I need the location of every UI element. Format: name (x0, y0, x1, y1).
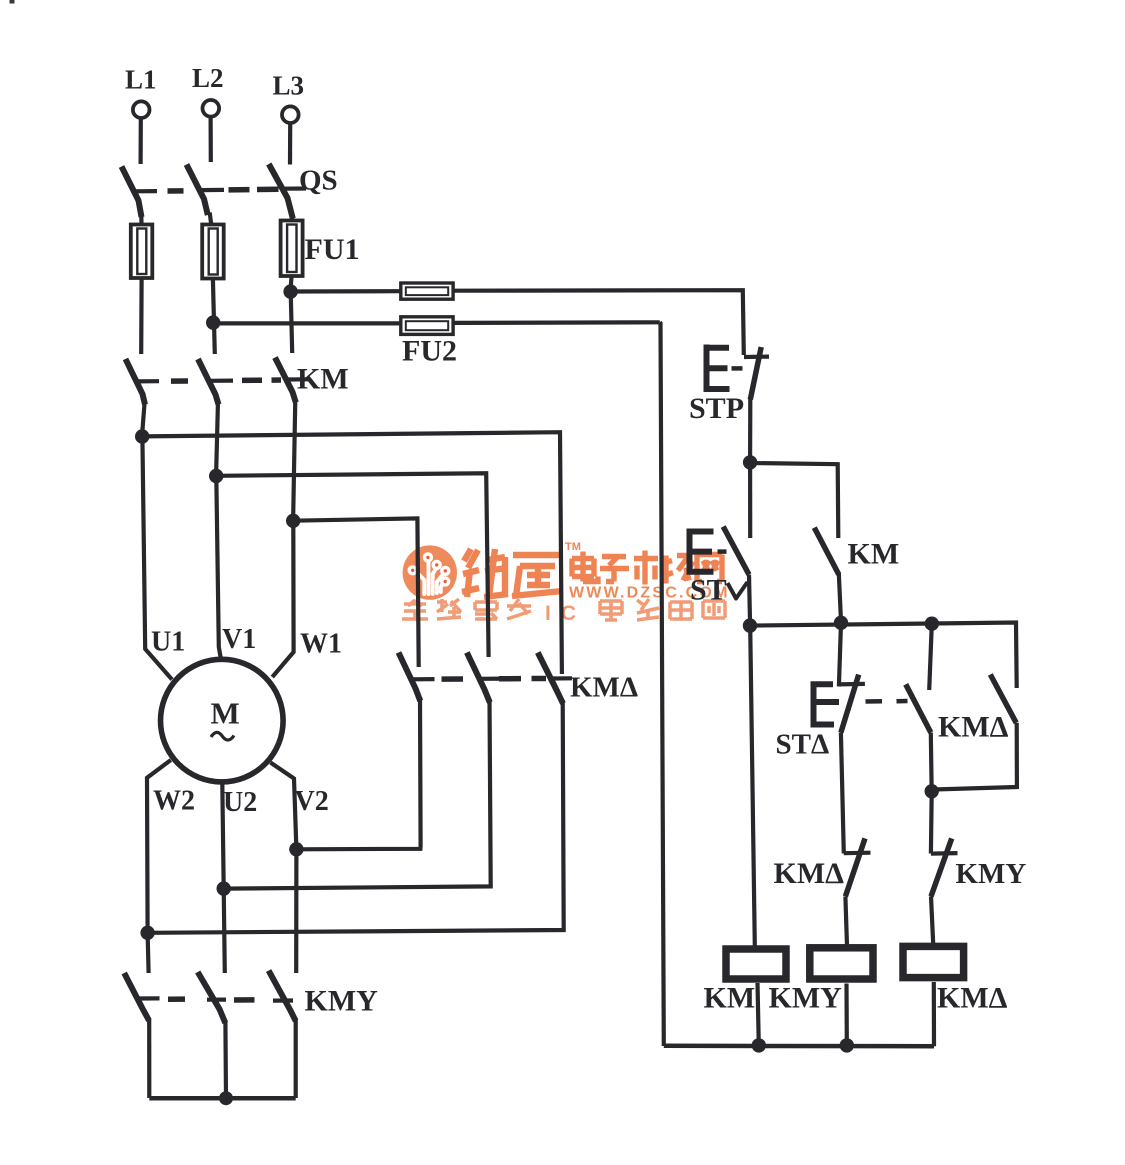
pushbutton STP actuator (704, 345, 730, 392)
wire node G down (929, 624, 932, 690)
wire KMd3 down to W2 line (148, 700, 564, 933)
coil KMY (810, 948, 873, 979)
wire ST to node E (749, 575, 750, 621)
switch QS pole 1 (122, 167, 142, 218)
motor tilde (211, 732, 234, 740)
wire node H to KMY NC (929, 792, 934, 854)
contactor KM pole 1 (126, 359, 146, 405)
pushbutton ST contact (723, 527, 749, 575)
wire L3 down (288, 124, 292, 165)
wire node B to KMd pole2 (216, 473, 488, 657)
contact KMY NC (931, 851, 958, 856)
svg-text:L2: L2 (192, 63, 224, 93)
wire KMdelta aux to node H (934, 723, 1017, 790)
svg-text:KM: KM (297, 363, 349, 396)
svg-text:W1: W1 (300, 629, 342, 660)
node KM coil bus (752, 1038, 766, 1052)
contactor KMY pole 3 (269, 971, 296, 1021)
wire KM2 to node B (216, 401, 218, 472)
wire QS1 to FU1a (139, 213, 143, 226)
node H (925, 784, 939, 798)
svg-text:L1: L1 (125, 65, 157, 95)
fuse FU1 pole 1 (131, 225, 153, 279)
svg-text:KMY: KMY (305, 985, 379, 1018)
wire node C to motor W1 (272, 521, 293, 677)
node star point (219, 1091, 233, 1105)
contactor KMdelta pole 3 (538, 653, 563, 704)
svg-text:W2: W2 (153, 786, 195, 817)
KMY linkage dashes (168, 996, 255, 1002)
wire node F to STdelta (839, 623, 841, 687)
wire node E to KM coil (750, 626, 755, 946)
contactor KMY pole 1 (124, 973, 149, 1021)
svg-text:M: M (211, 696, 240, 731)
svg-text:KMY: KMY (769, 982, 843, 1015)
node V2 (289, 842, 303, 856)
motor M circle (161, 659, 284, 782)
STdelta linkage dashes (866, 699, 908, 704)
wire KM aux to bus (839, 573, 841, 619)
svg-text:FU2: FU2 (402, 335, 457, 368)
switch QS pole 3 (269, 164, 293, 219)
node FU2b tap (206, 315, 220, 329)
fuse FU1 pole 3 (290, 215, 295, 222)
pushbutton STdelta NC contact (839, 682, 865, 687)
wire KMY2 to star bus (223, 1022, 228, 1098)
node G (925, 617, 939, 631)
svg-text:V2: V2 (295, 786, 329, 817)
watermark text weiku (462, 549, 562, 597)
wire KMY coil to bus (844, 984, 848, 1042)
svg-text:V1: V1 (222, 624, 256, 655)
coil KM (726, 949, 786, 979)
svg-text:FU1: FU1 (305, 233, 360, 266)
svg-text:KMΔ: KMΔ (774, 857, 845, 890)
node FU2a tap (283, 284, 297, 298)
node C (286, 514, 300, 528)
STP dash (732, 366, 743, 371)
wire FU1c to node (291, 276, 292, 288)
wire STP to node D (748, 397, 752, 458)
wire FU1a to KM1 (139, 279, 144, 355)
wire KM3 to node C (293, 399, 295, 517)
wire control bus (750, 623, 1017, 689)
terminal L2 (203, 100, 220, 117)
pushbutton STP contact (744, 355, 769, 360)
node KMY coil bus (840, 1038, 854, 1052)
contact KMdelta aux NO (990, 675, 1016, 723)
node D (743, 455, 757, 469)
svg-text:KM: KM (848, 538, 900, 571)
wire node A to KMd pole3 (142, 432, 562, 674)
node W2 (140, 926, 154, 940)
contact KM aux (814, 528, 839, 575)
wire motor V2 down (271, 763, 297, 974)
contact KMdelta NC (844, 851, 871, 856)
label ST check mark (728, 582, 748, 599)
watermark text dianzishichangwang (572, 551, 722, 585)
contactor KM pole 3 (275, 358, 296, 403)
wire node to KM3 (291, 292, 293, 353)
svg-text:TM: TM (565, 541, 581, 553)
wire KMdelta coil to bus (932, 982, 936, 1046)
svg-text:KM: KM (704, 982, 756, 1015)
svg-text:KMΔ: KMΔ (937, 982, 1008, 1015)
corner scan mark (10, 0, 15, 4)
node F (834, 616, 848, 630)
wire KMd2 down to U2 line (224, 699, 491, 889)
wire node A to motor U1 (142, 437, 172, 680)
wire L2 down (209, 117, 213, 162)
wire star point bus (149, 1096, 295, 1101)
node U2 (217, 881, 231, 895)
wire KMd1 down to V2 line (297, 697, 421, 849)
fuse FU1 pole 2 (210, 213, 212, 227)
svg-text:KMY: KMY (956, 858, 1027, 890)
wire node C to KMd pole1 (293, 518, 418, 667)
wire STdelta to KMdelta NC (841, 733, 844, 854)
wire KM coil to bus (758, 983, 759, 1041)
wire motor W2 down (147, 760, 171, 973)
watermark logo (403, 545, 457, 599)
wire FU2b line (213, 322, 659, 323)
watermark bottom line (402, 599, 725, 620)
contactor KM pole 2 (198, 359, 219, 405)
svg-text:ST: ST (690, 574, 727, 607)
svg-text:KMΔ: KMΔ (570, 672, 638, 704)
wire STdelta NO to node H (929, 733, 934, 788)
contactor KMY pole 2 (198, 972, 226, 1023)
contactor KMdelta pole 1 (399, 653, 421, 702)
node E (743, 618, 757, 632)
contactor KMdelta pole 2 (467, 653, 490, 703)
svg-text:QS: QS (299, 165, 338, 197)
terminal L3 (282, 106, 299, 123)
wire FU1b down through node (213, 279, 215, 354)
svg-text:IC: IC (545, 602, 586, 625)
wire node D to KM aux (750, 463, 838, 538)
terminal L1 (133, 101, 150, 118)
ST dash (718, 549, 727, 554)
wire KM1 to node A (142, 400, 145, 432)
svg-text:L3: L3 (273, 71, 305, 101)
wire motor U2 down (222, 783, 225, 974)
svg-text:U1: U1 (151, 627, 185, 658)
wire FU2a line (291, 290, 744, 355)
coil KMdelta (903, 946, 964, 977)
wire KMdelta NC to KMY coil (845, 896, 847, 946)
pushbutton STdelta NO contact (906, 684, 931, 732)
wire L1 down (139, 119, 143, 164)
KM linkage dashes (171, 380, 281, 381)
fuse FU2 bottom (401, 317, 453, 335)
wire node B to motor V1 (216, 476, 221, 659)
switch QS pole 2 (187, 165, 208, 216)
svg-text:STΔ: STΔ (776, 729, 830, 761)
wire KMY NC to KMdelta coil (931, 896, 933, 946)
node B (209, 469, 223, 483)
node A (135, 429, 149, 443)
QS linkage dashes (168, 189, 279, 191)
svg-text:KMΔ: KMΔ (938, 711, 1009, 744)
pushbutton STdelta actuator (811, 682, 840, 728)
svg-text:U2: U2 (223, 787, 257, 818)
fuse FU2 top (401, 283, 453, 299)
wire bottom control bus (664, 1044, 934, 1049)
pushbutton ST actuator (687, 529, 714, 575)
wire KMY3 to star bus (294, 1020, 298, 1098)
wire node D to ST (748, 463, 752, 538)
wire KMY1 to star bus (147, 1019, 151, 1098)
svg-text:STP: STP (689, 392, 744, 425)
KMdelta linkage dashes (442, 676, 547, 682)
wire control left rail (660, 322, 664, 1046)
